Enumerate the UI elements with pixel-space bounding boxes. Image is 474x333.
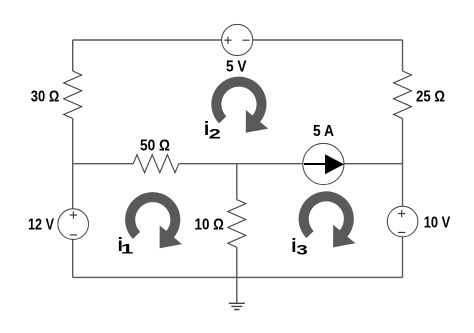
svg-text:12 V: 12 V [28, 216, 55, 233]
svg-text:5 V: 5 V [226, 59, 247, 76]
svg-text:3: 3 [296, 241, 308, 257]
svg-text:10 Ω: 10 Ω [195, 217, 224, 234]
svg-text:1: 1 [121, 241, 134, 257]
svg-text:30 Ω: 30 Ω [31, 88, 60, 105]
svg-text:25 Ω: 25 Ω [416, 88, 445, 105]
svg-text:5 A: 5 A [313, 123, 334, 140]
svg-text:10 V: 10 V [424, 215, 451, 232]
svg-text:50 Ω: 50 Ω [140, 138, 170, 155]
svg-text:2: 2 [209, 125, 222, 141]
